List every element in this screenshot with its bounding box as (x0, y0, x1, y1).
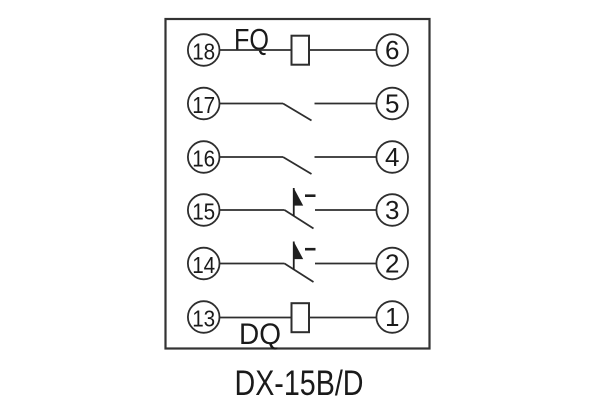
flag stem on blade 15-3 (293, 188, 295, 216)
label FQ (234, 24, 269, 57)
wire terminal 18 to coil FQ (220, 49, 292, 51)
wire fixed contact to terminal 3 (315, 209, 376, 211)
wire terminal 13 to coil DQ (220, 317, 292, 319)
terminal 6 (376, 34, 408, 66)
model designation label DX-15B/D (235, 364, 364, 400)
svg-text:15: 15 (192, 198, 215, 224)
border frame of relay case (166, 19, 430, 349)
terminal 4 (376, 141, 408, 173)
wire terminal 14 to contact pivot (220, 263, 285, 265)
svg-text:1: 1 (385, 302, 399, 332)
contact blade 14-2 (passing contact) (285, 264, 314, 283)
contact blade 15-3 (passing contact) (285, 210, 314, 229)
terminal 15 (188, 194, 220, 226)
wire terminal 15 to contact pivot (220, 209, 285, 211)
svg-text:DQ: DQ (239, 318, 281, 351)
wire fixed contact to terminal 4 (315, 156, 377, 158)
svg-text:6: 6 (385, 35, 399, 65)
terminal 16 (188, 141, 220, 173)
wire terminal 17 to contact pivot (220, 103, 284, 105)
wire coil DQ to terminal 1 (309, 317, 376, 319)
terminal 17 (188, 88, 220, 120)
svg-text:DX-15B/D: DX-15B/D (235, 364, 364, 400)
terminal 2 (376, 248, 408, 280)
terminal 5 (376, 88, 408, 120)
wire terminal 16 to contact pivot (220, 156, 284, 158)
coil FQ (292, 36, 310, 65)
terminal 18 (188, 34, 220, 66)
flag stem on blade 14-2 (293, 242, 295, 270)
terminal 13 (188, 301, 220, 333)
svg-text:13: 13 (192, 305, 215, 331)
flag arrowhead 14-2 (294, 242, 303, 260)
svg-text:3: 3 (385, 195, 399, 225)
svg-text:14: 14 (192, 252, 215, 278)
dash mark 14-2 (305, 248, 316, 251)
svg-text:2: 2 (385, 249, 399, 279)
svg-text:FQ: FQ (234, 24, 269, 57)
svg-text:16: 16 (192, 145, 215, 171)
wire fixed contact to terminal 2 (315, 263, 376, 265)
svg-text:5: 5 (385, 89, 399, 119)
flag arrowhead 15-3 (294, 188, 303, 206)
svg-text:17: 17 (192, 92, 215, 118)
dash mark 15-3 (305, 194, 316, 197)
svg-text:18: 18 (192, 38, 215, 64)
coil DQ (292, 303, 310, 332)
terminal 1 (376, 301, 408, 333)
wire fixed contact to terminal 5 (315, 103, 377, 105)
svg-text:4: 4 (385, 142, 399, 172)
contact blade 17-5 (normally open) (283, 104, 312, 121)
contact blade 16-4 (normally open) (283, 157, 312, 174)
wire coil FQ to terminal 6 (309, 49, 376, 51)
terminal 14 (188, 248, 220, 280)
terminal 3 (376, 194, 408, 226)
label DQ (239, 318, 281, 351)
